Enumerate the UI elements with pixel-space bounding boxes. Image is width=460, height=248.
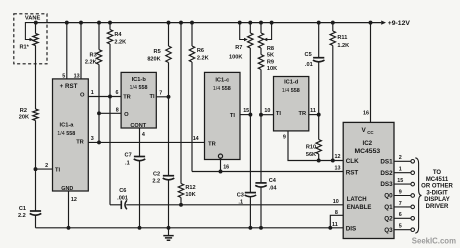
svg-text:9: 9 — [283, 135, 286, 141]
capacitor C6 — [120, 201, 122, 210]
resistor R5 — [166, 46, 171, 63]
terminal Q1 — [411, 205, 415, 209]
svg-text:DS2: DS2 — [380, 170, 393, 177]
node rail pin13 — [79, 21, 83, 25]
wire output Q0 — [394, 195, 411, 197]
wire pin9-CLK — [288, 131, 343, 161]
svg-text:R5: R5 — [154, 49, 161, 55]
terminal Q3 — [411, 228, 415, 232]
svg-text:R7: R7 — [235, 45, 242, 51]
svg-text:C1: C1 — [19, 206, 26, 212]
svg-text:56K: 56K — [306, 152, 316, 158]
svg-text:VANE: VANE — [25, 16, 41, 22]
svg-text:V: V — [362, 127, 367, 134]
timer IC1-c — [205, 72, 241, 159]
wire pin8 Vss — [330, 215, 343, 228]
svg-text:DIS: DIS — [346, 226, 357, 233]
wire R11 top — [332, 23, 334, 31]
resistor R4 — [107, 30, 112, 45]
node pin8-rail — [328, 226, 332, 230]
node rail R6 — [190, 21, 194, 25]
node R3-O8 — [97, 111, 101, 115]
wire TI2 — [36, 168, 53, 170]
wire latch-enable — [126, 204, 343, 206]
svg-text:14: 14 — [193, 136, 199, 142]
svg-text:13: 13 — [335, 165, 341, 171]
wire R3 top — [98, 23, 100, 50]
wire R10-CLK — [318, 154, 320, 161]
resistor R9 — [258, 55, 263, 70]
svg-text:1.2K: 1.2K — [337, 43, 349, 49]
svg-text:Q2: Q2 — [384, 215, 393, 222]
node C2-rail — [167, 226, 171, 230]
svg-text:O: O — [80, 92, 85, 98]
wire C4-ground — [260, 187, 262, 228]
node rail R7 — [248, 21, 252, 25]
resistor R11 — [330, 31, 335, 46]
svg-text:2.2K: 2.2K — [114, 39, 126, 45]
wire output DS1 — [394, 160, 411, 162]
svg-text:IC1-c: IC1-c — [215, 77, 229, 83]
svg-text:O: O — [124, 112, 129, 118]
svg-text:15: 15 — [397, 178, 403, 184]
svg-text:20K: 20K — [19, 115, 29, 121]
svg-text:RST: RST — [346, 170, 359, 177]
svg-text:Q1: Q1 — [384, 204, 393, 211]
terminal Q2 — [411, 217, 415, 221]
svg-text:5K: 5K — [267, 53, 274, 59]
wire output Q3 — [394, 229, 411, 231]
wire R4 top — [109, 23, 111, 30]
svg-text:+9-12V: +9-12V — [388, 20, 411, 27]
resistor R8 — [258, 33, 263, 48]
resistor R2 — [33, 109, 38, 121]
svg-text:2.2K: 2.2K — [197, 55, 209, 61]
wire output Q2 — [394, 217, 411, 219]
svg-text:R4: R4 — [114, 32, 122, 38]
svg-text:1/4 558: 1/4 558 — [130, 85, 148, 91]
svg-text:16: 16 — [223, 164, 229, 170]
svg-text:ENABLE: ENABLE — [347, 205, 372, 211]
resistor R6 — [189, 46, 194, 62]
svg-text:100K: 100K — [229, 54, 242, 60]
svg-text:8: 8 — [116, 107, 119, 113]
wire C3-ground — [249, 197, 251, 228]
timer IC1-d — [274, 77, 309, 131]
svg-text:TI: TI — [149, 94, 154, 100]
svg-text:LATCH: LATCH — [347, 197, 367, 203]
capacitor C1 — [30, 210, 41, 212]
svg-text:2: 2 — [399, 155, 402, 161]
svg-text:7: 7 — [399, 201, 402, 207]
node TI15-C3 — [248, 113, 252, 117]
wire R4 down — [109, 44, 111, 205]
wire TR3 — [88, 141, 204, 143]
node R11-CLK — [331, 159, 335, 163]
svg-text:TR: TR — [76, 139, 84, 145]
resistor R10 — [316, 140, 321, 155]
node R4-O1 — [108, 95, 112, 99]
svg-text:6: 6 — [399, 212, 402, 218]
wire R1 top — [35, 23, 37, 34]
svg-text:TI: TI — [276, 111, 281, 117]
R8 wiper — [267, 23, 272, 40]
svg-text:C7: C7 — [125, 152, 132, 158]
svg-text:Q3: Q3 — [384, 227, 393, 234]
svg-text:4: 4 — [142, 132, 145, 138]
terminal Q0 — [411, 194, 415, 198]
node rail pin5 — [65, 21, 69, 25]
timer IC1-a — [53, 79, 89, 191]
R7 wiper — [240, 23, 245, 40]
svg-text:GND: GND — [61, 186, 73, 192]
node C3-rail — [248, 226, 252, 230]
svg-text:5: 5 — [399, 224, 402, 230]
node GND12-rail — [67, 226, 71, 230]
VANE enclosure — [14, 14, 47, 64]
node C7-rail — [138, 226, 142, 230]
node rail R7w — [238, 21, 242, 25]
svg-text:.04: .04 — [269, 186, 278, 192]
wire TR11 — [309, 114, 319, 116]
node TI2 — [34, 167, 38, 171]
wire R7 top — [249, 23, 251, 33]
wire R11-CLK — [332, 46, 334, 161]
svg-text:C5: C5 — [305, 52, 312, 58]
node rail Vcc16 — [369, 21, 373, 25]
svg-text:R1*: R1* — [20, 45, 30, 51]
svg-text:OR OTHER: OR OTHER — [421, 184, 453, 190]
svg-text:.001: .001 — [117, 196, 128, 202]
wire R1-R2 — [35, 46, 37, 110]
node R10-CLK — [317, 159, 321, 163]
svg-text:R3: R3 — [90, 52, 97, 58]
capacitor C2 — [163, 175, 174, 177]
svg-text:TO: TO — [433, 170, 442, 176]
svg-text:11: 11 — [310, 108, 316, 114]
svg-text:13: 13 — [74, 74, 80, 80]
node rail R12 — [179, 21, 183, 25]
svg-text:CONT: CONT — [130, 123, 146, 129]
svg-text:12: 12 — [71, 197, 77, 203]
resistor R7 — [248, 33, 253, 48]
node rail R3 — [97, 21, 101, 25]
node TI7-R5 — [167, 95, 171, 99]
node R3-TR3 — [97, 140, 101, 144]
wire R12 top — [180, 23, 182, 184]
timer IC1-b — [121, 72, 156, 128]
node R12-LE — [179, 203, 183, 207]
node rail R8w — [270, 21, 274, 25]
svg-text:R8: R8 — [267, 46, 274, 52]
resistor R12 — [178, 184, 183, 198]
wire C4 column upper — [260, 115, 262, 183]
wire C5 top — [318, 23, 320, 58]
capacitor C3 — [245, 192, 256, 194]
wire TI7 — [156, 96, 168, 98]
wire +V rail — [36, 22, 381, 24]
svg-text:R11: R11 — [337, 35, 347, 41]
svg-text:TR: TR — [208, 142, 216, 148]
svg-text:R10: R10 — [306, 145, 316, 151]
capacitor C4 — [255, 182, 266, 184]
svg-text:DS1: DS1 — [380, 158, 393, 165]
op IC1-a wires pin5 pin13 — [66, 23, 68, 79]
svg-text:15: 15 — [243, 108, 249, 114]
wire R8 top — [260, 23, 262, 33]
node rail R11 — [331, 21, 335, 25]
svg-text:820K: 820K — [147, 56, 160, 62]
wire R9 down — [260, 70, 262, 115]
node TR11 — [317, 113, 321, 117]
wire ground rail — [36, 227, 344, 229]
svg-text:C2: C2 — [153, 171, 160, 177]
svg-text:MC4553: MC4553 — [354, 148, 380, 155]
svg-text:10K: 10K — [185, 192, 195, 198]
terminal DS2 — [411, 171, 415, 175]
svg-text:R9: R9 — [267, 60, 274, 66]
svg-text:CLK: CLK — [346, 158, 359, 165]
node rail R8 — [259, 21, 263, 25]
svg-text:7: 7 — [159, 90, 162, 96]
wire RST line — [192, 171, 343, 173]
wire CONT4 — [139, 128, 141, 157]
svg-text:1/4 558: 1/4 558 — [57, 131, 75, 137]
svg-text:2.2K: 2.2K — [85, 60, 97, 66]
node O16-RST — [219, 170, 223, 174]
wire R7 down — [249, 48, 251, 115]
ground — [163, 236, 173, 241]
svg-text:.01: .01 — [305, 62, 313, 68]
node rail R5 — [167, 21, 171, 25]
wire TI10 — [261, 114, 274, 116]
wire C1-ground rail — [35, 215, 37, 227]
svg-text:R2: R2 — [20, 108, 27, 114]
wire Vcc16 — [370, 23, 372, 123]
wire output Q1 — [394, 206, 411, 208]
svg-text:1/4 558: 1/4 558 — [213, 86, 231, 92]
svg-text:3: 3 — [91, 136, 94, 142]
svg-text:11: 11 — [332, 222, 338, 228]
svg-text:C6: C6 — [119, 188, 126, 194]
svg-text:TI: TI — [230, 113, 235, 119]
svg-text:IC2: IC2 — [362, 140, 372, 147]
svg-text:SeekIC.com: SeekIC.com — [412, 237, 456, 246]
wire O1 — [88, 96, 121, 98]
svg-text:DS3: DS3 — [380, 181, 393, 188]
svg-text:R6: R6 — [197, 48, 204, 54]
svg-text:.1: .1 — [238, 200, 243, 206]
svg-text:12: 12 — [335, 154, 341, 160]
counter IC2 MC4553 — [343, 122, 394, 238]
svg-text:1: 1 — [399, 167, 402, 173]
svg-text:5: 5 — [62, 74, 65, 80]
terminal DS1 — [411, 160, 415, 164]
capacitor C5 — [313, 57, 324, 59]
node rail R4 — [108, 21, 112, 25]
svg-text:TI: TI — [55, 168, 60, 174]
output bubble IC1-c — [218, 154, 222, 158]
R1 wiper arrow — [25, 23, 35, 40]
wire R5-C2 — [168, 63, 170, 176]
svg-text:1/4 558: 1/4 558 — [282, 88, 300, 94]
svg-text:6: 6 — [116, 90, 119, 96]
wire C2-ground — [168, 180, 170, 228]
svg-text:2: 2 — [45, 163, 48, 169]
node C4-rail — [259, 226, 263, 230]
node rail-R1 — [34, 21, 38, 25]
resistor R1 — [33, 34, 38, 46]
svg-text:10K: 10K — [267, 66, 277, 72]
svg-text:2.2: 2.2 — [18, 213, 26, 219]
svg-text:10: 10 — [264, 108, 270, 114]
wire C7-ground — [139, 161, 141, 228]
wire C3 column upper — [249, 115, 251, 193]
svg-text:MC4511: MC4511 — [426, 177, 449, 183]
capacitor C7 — [134, 156, 145, 158]
svg-text:9: 9 — [399, 189, 402, 195]
wire R12-LE — [180, 198, 182, 205]
node TI10-C4 — [259, 113, 263, 117]
wire R5 top — [168, 23, 170, 46]
wire O8 — [99, 112, 121, 114]
svg-text:DRIVER: DRIVER — [426, 204, 449, 210]
wire C5-R10 — [318, 62, 320, 139]
wire R6 down — [191, 62, 193, 172]
wire TI15 — [240, 114, 250, 116]
svg-text:.1: .1 — [125, 161, 130, 167]
brace to driver — [415, 158, 421, 233]
svg-text:C3: C3 — [237, 192, 244, 198]
node rail C5 — [317, 21, 321, 25]
svg-text:TR: TR — [123, 94, 131, 100]
terminal DS3 — [411, 182, 415, 186]
svg-text:C4: C4 — [269, 178, 277, 184]
wire latch-enable left — [110, 204, 121, 206]
wire output DS3 — [394, 183, 411, 185]
resistor R3 — [96, 50, 101, 65]
wire R8-R9 — [260, 48, 262, 55]
svg-text:IC1-a: IC1-a — [60, 122, 75, 128]
svg-text:16: 16 — [363, 110, 369, 116]
wire R2-C1 — [35, 121, 37, 212]
+9-12V supply arrow — [381, 21, 386, 25]
svg-text:3-DIGIT: 3-DIGIT — [426, 191, 448, 197]
svg-text:IC1-d: IC1-d — [284, 80, 299, 86]
wire R6 top — [191, 23, 193, 46]
svg-text:R12: R12 — [185, 185, 195, 191]
svg-text:TR: TR — [299, 111, 307, 117]
wire R3 down — [98, 65, 100, 143]
svg-text:10: 10 — [333, 199, 339, 205]
svg-text:1: 1 — [91, 90, 94, 96]
svg-text:DISPLAY: DISPLAY — [424, 197, 449, 203]
svg-text:CC: CC — [367, 130, 374, 135]
wire O16 — [220, 158, 222, 171]
wire GND12 — [68, 191, 70, 228]
svg-text:Q0: Q0 — [384, 193, 393, 200]
svg-text:+ RST: + RST — [60, 83, 78, 90]
svg-text:IC1-b: IC1-b — [132, 77, 147, 83]
svg-text:2.2: 2.2 — [152, 179, 160, 185]
wire output DS2 — [394, 172, 411, 174]
